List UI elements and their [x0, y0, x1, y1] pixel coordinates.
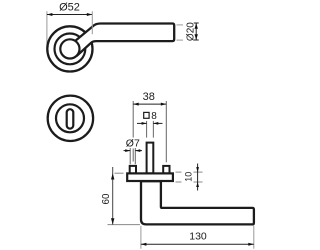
dimension 10 line [197, 164, 199, 191]
escutcheon outer circle [48, 96, 93, 141]
lever shaft and grip (top view) [75, 24, 174, 56]
svg-text:Ø52: Ø52 [59, 2, 80, 14]
hub circle [60, 39, 79, 58]
dimension 10 dashes [176, 172, 203, 182]
left screw boss [130, 166, 136, 174]
lever body L-shape (side view) [141, 181, 254, 224]
svg-text:Ø20: Ø20 [185, 22, 196, 41]
dimension Ø52 extension lines [46, 11, 48, 50]
dimension Ø20 dashes [177, 25, 184, 40]
dimension square-8 arrows [137, 122, 163, 124]
dimension square-8 extension lines [147, 121, 154, 138]
collar circle [55, 34, 86, 65]
svg-text:10: 10 [183, 172, 193, 182]
dimension Ø52 right extension line [91, 11, 93, 34]
svg-text:60: 60 [101, 193, 112, 204]
dimension 38 extension lines [133, 101, 166, 162]
dimension 130 extension lines [141, 226, 254, 249]
right screw boss [163, 166, 169, 174]
dimension 60 dashes [108, 173, 141, 224]
svg-text:38: 38 [143, 91, 155, 103]
dimension Ø7 extension lines [130, 148, 135, 164]
dimension Ø52 line [47, 14, 92, 16]
svg-text:Ø7: Ø7 [126, 138, 140, 150]
dimension square-8 label [144, 111, 158, 122]
dimension 130 line [141, 243, 254, 245]
escutcheon key slot [67, 109, 74, 128]
rose outer circle (top view) [47, 26, 92, 71]
svg-text:130: 130 [189, 231, 207, 243]
svg-text:8: 8 [151, 111, 157, 122]
dimension 38 line [133, 103, 166, 105]
dimension Ø7 arrows [124, 150, 143, 152]
dimension Ø20 line [194, 23, 199, 40]
rose plate (side view) [127, 173, 173, 181]
escutcheon inner circle [56, 104, 84, 132]
spindle (side view) [147, 143, 154, 174]
dimension 60 line [112, 167, 114, 225]
